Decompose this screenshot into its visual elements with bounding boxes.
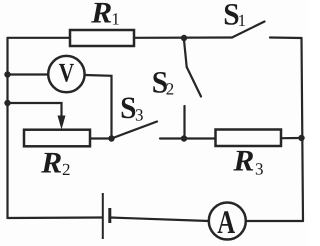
switch S1 — [232, 22, 265, 38]
rheostat slider arrow — [58, 116, 66, 130]
node voltmeter tap — [4, 71, 10, 77]
svg-text:1: 1 — [238, 11, 247, 30]
wire battery to bottom left — [8, 216, 103, 219]
svg-text:V: V — [59, 57, 75, 87]
svg-text:3: 3 — [255, 159, 264, 178]
wire ammeter to battery — [110, 218, 209, 222]
wire top left to R1 — [8, 37, 71, 39]
wire R1 to S2 node — [134, 36, 232, 38]
wire right frame — [302, 38, 304, 221]
label R1 — [90, 0, 120, 30]
label S3 — [120, 90, 143, 125]
label R2 — [40, 146, 70, 179]
node S2 bottom — [181, 135, 187, 141]
label S2 — [152, 65, 175, 100]
wire R2 slider branch — [8, 103, 62, 117]
node top S2 — [181, 35, 187, 41]
wire left frame — [6, 38, 8, 218]
resistor R2 (rheostat) — [24, 130, 90, 147]
svg-text:A: A — [217, 205, 235, 241]
wire bottom right to ammeter — [246, 220, 303, 222]
wire voltmeter right down to S3 node — [85, 75, 112, 139]
node R3 right — [298, 135, 304, 141]
node slider tap — [4, 100, 10, 106]
wire voltmeter branch left — [8, 73, 49, 75]
battery long plate — [102, 193, 104, 239]
label S1 — [223, 0, 246, 32]
resistor R3 — [216, 130, 282, 147]
svg-text:1: 1 — [111, 10, 120, 29]
battery short plate — [108, 208, 111, 223]
svg-text:R: R — [90, 0, 112, 30]
wire S3 fixed contact to R3 — [160, 137, 216, 139]
voltmeter V — [48, 56, 84, 92]
node S3 pivot — [108, 135, 114, 141]
label R3 — [232, 145, 263, 179]
switch S3 — [112, 122, 158, 139]
svg-text:2: 2 — [62, 160, 71, 179]
switch S2 — [184, 40, 187, 67]
svg-text:3: 3 — [135, 105, 144, 124]
wire R3 to right frame — [281, 137, 302, 139]
node junction dots — [4, 35, 304, 142]
ammeter circle — [209, 203, 246, 240]
svg-text:2: 2 — [166, 80, 175, 99]
wire S1 fixed contact to top right corner — [270, 36, 302, 39]
svg-text:R: R — [40, 146, 62, 179]
resistor R1 — [70, 30, 134, 46]
wire R2 to S3 — [90, 137, 112, 139]
svg-text:R: R — [232, 145, 254, 178]
